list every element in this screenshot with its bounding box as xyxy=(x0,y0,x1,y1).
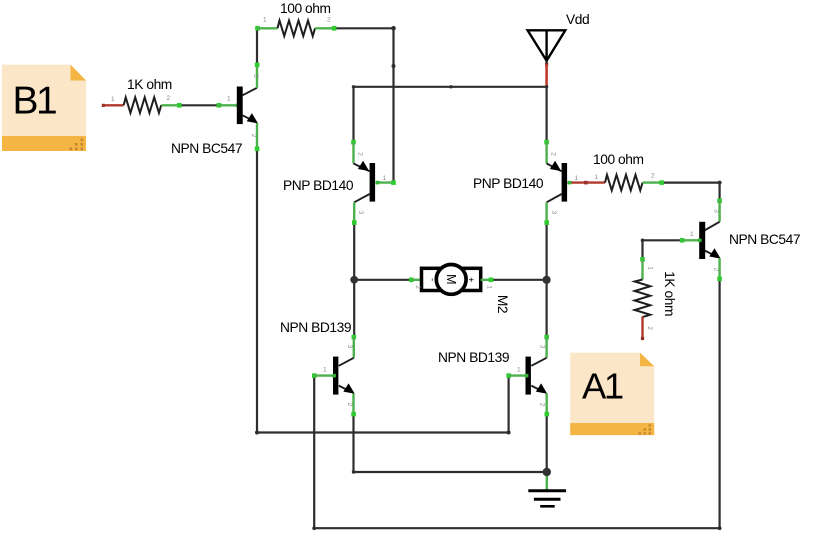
wire: BD139R emitter down to ground junction xyxy=(546,414,548,472)
wire: upper horizontal rail y87 xyxy=(354,86,547,88)
power Vdd xyxy=(528,12,590,87)
svg-text:1: 1 xyxy=(575,175,579,182)
svg-text:1: 1 xyxy=(323,367,327,374)
junction: Vdd corner xyxy=(545,85,548,88)
svg-text:1: 1 xyxy=(263,17,267,24)
wire: BD139L base down to bottom rail xyxy=(313,376,315,529)
svg-text:1: 1 xyxy=(111,96,115,103)
svg-text:3: 3 xyxy=(539,345,546,349)
wire: 100ohm right to Q4 collector xyxy=(663,183,720,200)
note B1 xyxy=(2,65,86,151)
wire: left PNP collector to junction to BD139L collector xyxy=(353,223,355,338)
svg-text:B1: B1 xyxy=(13,80,57,123)
svg-text:A1: A1 xyxy=(582,366,623,407)
junction: bottom rail left corner xyxy=(312,526,316,530)
svg-text:1: 1 xyxy=(227,96,231,103)
svg-text:NPN BD139: NPN BD139 xyxy=(438,350,510,365)
svg-text:3: 3 xyxy=(346,345,353,349)
svg-text:1: 1 xyxy=(647,266,654,270)
ground xyxy=(528,472,566,506)
svg-text:2: 2 xyxy=(712,268,719,272)
wire: 100ohm to corner above PNP base column xyxy=(336,28,394,182)
wire: B1 resistor to Q1 base xyxy=(181,104,219,106)
motor M2 xyxy=(409,265,510,314)
svg-text:1: 1 xyxy=(690,231,694,238)
transistor Q2 PNP BD140 (left) xyxy=(283,140,396,225)
resistor R4 1K ohm (right, vertical) xyxy=(635,257,677,340)
svg-text:2: 2 xyxy=(167,95,171,102)
svg-text:PNP BD140: PNP BD140 xyxy=(473,176,544,191)
junction: left emitter rail corner xyxy=(352,470,355,473)
junction: bend on upper rail xyxy=(449,85,452,88)
transistor Q1 NPN BC547 (left) xyxy=(171,63,259,157)
resistor R2 100 ohm (top) xyxy=(255,1,336,36)
transistor Q5 NPN BD139 (left) xyxy=(280,320,356,416)
svg-text:2: 2 xyxy=(357,152,364,156)
svg-text:3: 3 xyxy=(252,74,259,78)
svg-text:Vdd: Vdd xyxy=(566,12,589,27)
svg-text:1K ohm: 1K ohm xyxy=(662,271,677,316)
svg-text:M2: M2 xyxy=(495,295,510,313)
svg-text:1: 1 xyxy=(517,367,521,374)
junction: left upper rail corner xyxy=(352,85,355,88)
svg-text:3: 3 xyxy=(712,209,719,213)
wire: motor left xyxy=(354,279,411,281)
wire: right PNP collector down to BD139R collector xyxy=(545,223,547,338)
wire: BD139L emitter to ground rail xyxy=(354,414,547,472)
svg-text:2: 2 xyxy=(646,326,653,330)
junction: right resistor corner xyxy=(718,181,722,185)
resistor R3 100 ohm (right) xyxy=(586,152,664,190)
svg-text:2: 2 xyxy=(346,403,353,407)
transistor Q4 NPN BC547 (right) xyxy=(680,199,800,282)
junction: 1K column corner xyxy=(641,239,645,243)
svg-text:2: 2 xyxy=(539,403,546,407)
svg-text:100 ohm: 100 ohm xyxy=(280,1,331,16)
wire: motor right xyxy=(491,279,547,281)
svg-text:NPN BC547: NPN BC547 xyxy=(729,232,800,247)
wire: Q4 emitter down right trunk to bottom rail xyxy=(314,279,719,529)
junction: motor right node xyxy=(543,276,551,284)
junction: bend on PNP base column xyxy=(392,64,396,68)
transistor Q6 NPN BD139 (right) xyxy=(438,335,549,417)
note A1 xyxy=(570,353,654,436)
wire: Q1 collector up to 100ohm row xyxy=(256,28,258,64)
svg-text:PNP BD140: PNP BD140 xyxy=(283,178,354,193)
svg-text:3: 3 xyxy=(357,211,364,215)
transistor Q3 PNP BD140 (right) xyxy=(473,140,588,225)
svg-text:100 ohm: 100 ohm xyxy=(593,152,644,167)
svg-text:2: 2 xyxy=(550,152,557,156)
svg-text:3: 3 xyxy=(550,211,557,215)
svg-text:NPN BC547: NPN BC547 xyxy=(171,141,242,156)
junction: motor left node xyxy=(350,276,358,284)
wire: left trunk from y87 down to PNP emitter lead xyxy=(352,87,354,142)
wire: Q1 emitter down to rail y433 xyxy=(256,149,258,433)
svg-text:1: 1 xyxy=(486,285,493,289)
svg-text:1: 1 xyxy=(595,174,599,181)
svg-text:2: 2 xyxy=(651,173,655,180)
junction: ground node xyxy=(543,468,551,476)
svg-text:1: 1 xyxy=(383,175,387,182)
junction: corner top resistor xyxy=(391,26,396,31)
wire: Vdd red corner down to right PNP emitter xyxy=(545,87,547,142)
svg-text:NPN BD139: NPN BD139 xyxy=(280,320,352,335)
junction: bottom rail right corner xyxy=(718,526,722,530)
junction: rail y433 left corner xyxy=(255,431,259,435)
wire: Q4 base to 1K column corner xyxy=(643,240,682,259)
wire: rail y433 xyxy=(257,431,509,433)
resistor R1 1K ohm (left) xyxy=(102,77,182,113)
svg-text:M: M xyxy=(444,274,458,284)
svg-text:2: 2 xyxy=(327,17,331,24)
wire: BD139R base down to rail y433 xyxy=(508,376,510,433)
junction: rail y433 right corner xyxy=(507,431,511,435)
svg-text:2: 2 xyxy=(250,134,257,138)
svg-text:2: 2 xyxy=(414,285,421,289)
svg-text:1K ohm: 1K ohm xyxy=(127,77,172,92)
